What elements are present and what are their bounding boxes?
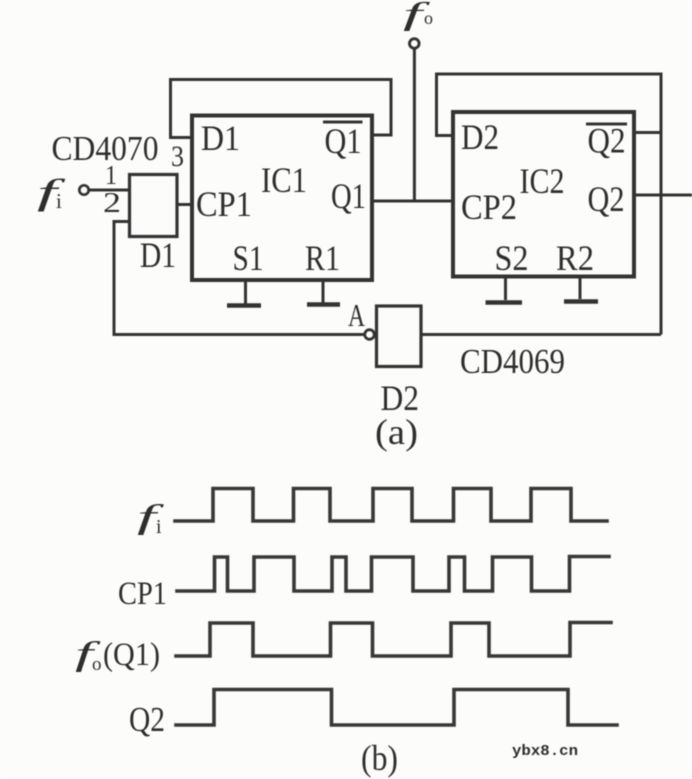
wire node A feedback to D1 pin 2 [114,222,365,335]
svg-text:(Q1): (Q1) [103,637,160,673]
IC1 box [192,116,372,281]
svg-text:CD4069: CD4069 [460,342,565,381]
svg-text:D2: D2 [461,117,499,157]
label f_i input [37,172,67,213]
svg-text:o: o [92,654,102,675]
svg-text:Q1: Q1 [331,176,366,216]
label f_o [403,0,433,31]
svg-text:2: 2 [103,188,121,219]
svg-text:D1: D1 [140,235,176,275]
svg-text:R2: R2 [556,238,594,278]
wire right vertical to inverter output [660,133,663,335]
feedback wire Q2-bar to D2 input of IC2 [437,74,662,136]
input terminal f_i [79,185,88,194]
svg-text:Q2: Q2 [588,179,625,219]
waveform f_o(Q1) [176,623,611,657]
svg-text:R1: R1 [305,238,340,278]
pin label Q1-bar of IC1 [323,121,363,161]
pin label Q2-bar of IC2 [586,121,627,161]
wire fi terminal to D1 pin 1 [90,189,130,192]
svg-text:(b): (b) [361,738,398,778]
label f_o(Q1) waveform [75,636,160,675]
svg-text:A: A [348,297,365,333]
wire Q2 output to right edge [634,194,692,197]
svg-text:(a): (a) [375,412,418,452]
output terminal f_o [410,39,420,49]
svg-text:Q2: Q2 [588,121,626,161]
waveform f_i [175,489,607,522]
wire f_o terminal down to Q1 node [413,49,416,201]
wire Q2-bar stub [634,131,661,134]
svg-text:Q2: Q2 [129,700,165,739]
svg-text:i: i [156,516,162,538]
label f_i waveform [137,499,165,538]
svg-text:1: 1 [105,160,117,190]
svg-text:CP1: CP1 [196,184,252,224]
wire Q1 to CP2 [372,200,453,203]
svg-text:IC2: IC2 [520,161,565,201]
ground at S2 [486,277,523,303]
XOR gate D1 box [130,175,178,237]
ground at S1 [227,280,261,306]
feedback wire Q1-bar to D1 input of IC1 [171,80,392,138]
inverter D2 box [377,306,422,367]
svg-text:S1: S1 [233,238,264,278]
IC2 box [453,112,634,277]
wire D2 output to right vertical [421,333,661,336]
svg-text:ybx8.cn: ybx8.cn [512,743,578,760]
svg-text:D1: D1 [201,118,240,158]
svg-text:CP2: CP2 [461,187,517,227]
inverter D2 input bubble at node A [365,330,375,340]
svg-text:CP1: CP1 [118,576,167,612]
wire D1 output to CP1 [177,203,192,206]
svg-text:o: o [424,8,433,28]
svg-text:i: i [56,189,62,213]
waveform CP1 [177,557,609,592]
ground at R2 [564,277,598,302]
svg-text:IC1: IC1 [261,160,307,200]
waveform Q2 [176,690,617,726]
svg-text:Q1: Q1 [325,121,362,161]
ground at R1 [307,280,340,305]
svg-text:S2: S2 [495,238,529,278]
svg-text:3: 3 [171,140,184,173]
